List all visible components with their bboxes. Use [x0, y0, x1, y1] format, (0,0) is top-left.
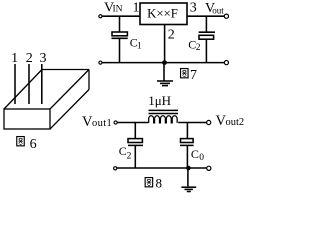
- svg-text:3: 3: [190, 1, 197, 16]
- pin 3 lead: [41, 64, 43, 104]
- label C2: [188, 38, 200, 54]
- node Vout1 label: [82, 114, 112, 130]
- svg-text:7: 7: [190, 68, 197, 83]
- node VIN label: [104, 1, 123, 16]
- inductor L1 1uH: [148, 93, 178, 123]
- svg-text:6: 6: [30, 137, 37, 152]
- svg-text:0: 0: [199, 153, 204, 163]
- wire C1 branch: [119, 16, 121, 32]
- wire pin 2 to ground rail: [164, 25, 166, 63]
- pin 2 lead: [28, 64, 30, 104]
- ground (fig7): [157, 63, 173, 86]
- junction C0/ground: [186, 166, 191, 171]
- regulator IC U1 (KxxF): [140, 3, 187, 25]
- svg-text:1: 1: [137, 41, 142, 51]
- terminal Vout1: [114, 121, 117, 124]
- svg-text:3: 3: [40, 51, 47, 66]
- node Vout2 label: [216, 113, 245, 129]
- caption fig 8 (图8): [145, 176, 162, 191]
- svg-text:C: C: [191, 147, 199, 161]
- label C0: [191, 147, 204, 163]
- capacitor C2 (filter input): [128, 123, 143, 169]
- wire regulator to Vout: [187, 15, 224, 17]
- node Vout label: [205, 1, 224, 16]
- wire VIN to regulator: [102, 15, 140, 17]
- svg-text:2: 2: [168, 28, 175, 43]
- terminal Vout2: [207, 120, 211, 124]
- terminal rail left: [114, 167, 117, 170]
- pin 1 lead: [14, 64, 16, 104]
- caption fig 7 (图7): [181, 68, 197, 83]
- svg-text:out1: out1: [92, 118, 112, 129]
- terminal VIN (input): [99, 15, 102, 18]
- terminal rail right: [224, 61, 228, 65]
- label C2: [119, 144, 132, 161]
- svg-text:1: 1: [11, 51, 18, 66]
- junction pin2/rail: [162, 60, 167, 65]
- wire inductor to Vout2: [178, 122, 206, 124]
- ground rail fig8: [117, 167, 207, 169]
- ground (fig8): [181, 168, 196, 192]
- svg-text:2: 2: [26, 51, 33, 66]
- caption fig 6 (图6): [17, 137, 37, 152]
- svg-text:1: 1: [133, 1, 140, 16]
- svg-text:1μH: 1μH: [148, 93, 171, 108]
- svg-text:out2: out2: [226, 117, 245, 128]
- package body (3D box): [4, 70, 89, 130]
- svg-text:8: 8: [156, 176, 163, 191]
- terminal rail right: [207, 166, 211, 170]
- ground rail fig7: [102, 62, 224, 64]
- svg-text:IN: IN: [113, 5, 123, 15]
- svg-text:2: 2: [127, 152, 132, 162]
- svg-text:2: 2: [196, 43, 201, 53]
- terminal rail left: [99, 61, 102, 64]
- wire Vout1 to inductor: [117, 122, 148, 124]
- capacitor C0 (filter output): [180, 123, 194, 169]
- capacitor C2: [199, 16, 215, 62]
- label C1: [130, 36, 142, 52]
- svg-text:out: out: [212, 6, 224, 16]
- capacitor C1: [112, 32, 128, 63]
- svg-text:K××F: K××F: [147, 7, 178, 21]
- terminal Vout (output): [224, 14, 228, 18]
